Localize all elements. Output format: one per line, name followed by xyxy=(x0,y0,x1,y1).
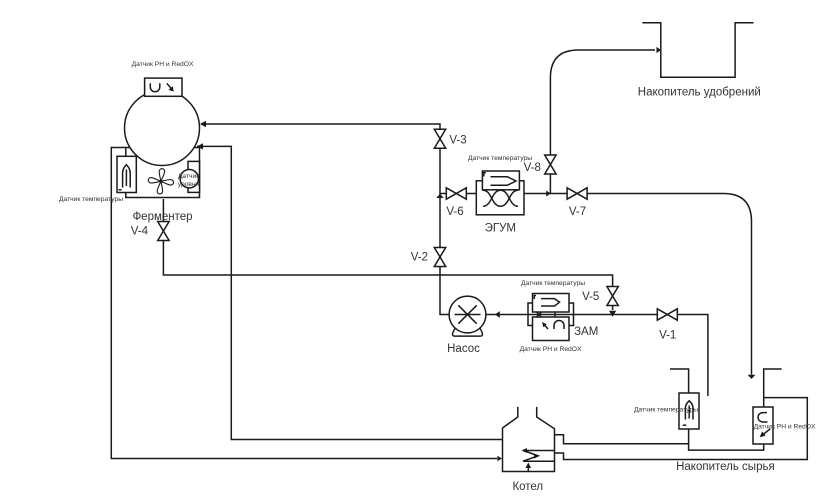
svg-text:V-8: V-8 xyxy=(524,162,541,174)
svg-text:V-1: V-1 xyxy=(659,330,676,342)
svg-text:Накопитель сырья: Накопитель сырья xyxy=(676,461,775,473)
svg-text:Датчик температуры: Датчик температуры xyxy=(59,196,123,203)
svg-text:Датчик температуры: Датчик температуры xyxy=(468,155,532,162)
svg-text:V-6: V-6 xyxy=(446,206,463,218)
svg-text:Датчик: Датчик xyxy=(178,173,199,180)
svg-text:Накопитель удобрений: Накопитель удобрений xyxy=(638,87,761,99)
svg-text:V-4: V-4 xyxy=(131,226,149,238)
svg-text:V-5: V-5 xyxy=(582,291,599,303)
svg-text:Котел: Котел xyxy=(512,481,543,493)
svg-text:Датчик температуры: Датчик температуры xyxy=(634,407,698,414)
svg-text:ЗАМ: ЗАМ xyxy=(574,326,598,338)
svg-text:Датчик температуры: Датчик температуры xyxy=(521,280,585,287)
svg-text:V-3: V-3 xyxy=(449,135,466,147)
svg-text:Насос: Насос xyxy=(447,343,480,355)
svg-text:Датчик PH и RedOX: Датчик PH и RedOX xyxy=(520,346,582,353)
svg-text:Датчик PH и RedOX: Датчик PH и RedOX xyxy=(754,424,816,431)
svg-text:ЭГУМ: ЭГУМ xyxy=(485,223,516,235)
svg-text:V-2: V-2 xyxy=(411,252,428,264)
svg-text:V-7: V-7 xyxy=(569,206,586,218)
svg-text:Датчик PH и RedOX: Датчик PH и RedOX xyxy=(132,61,194,68)
svg-text:уровня: уровня xyxy=(178,181,200,188)
